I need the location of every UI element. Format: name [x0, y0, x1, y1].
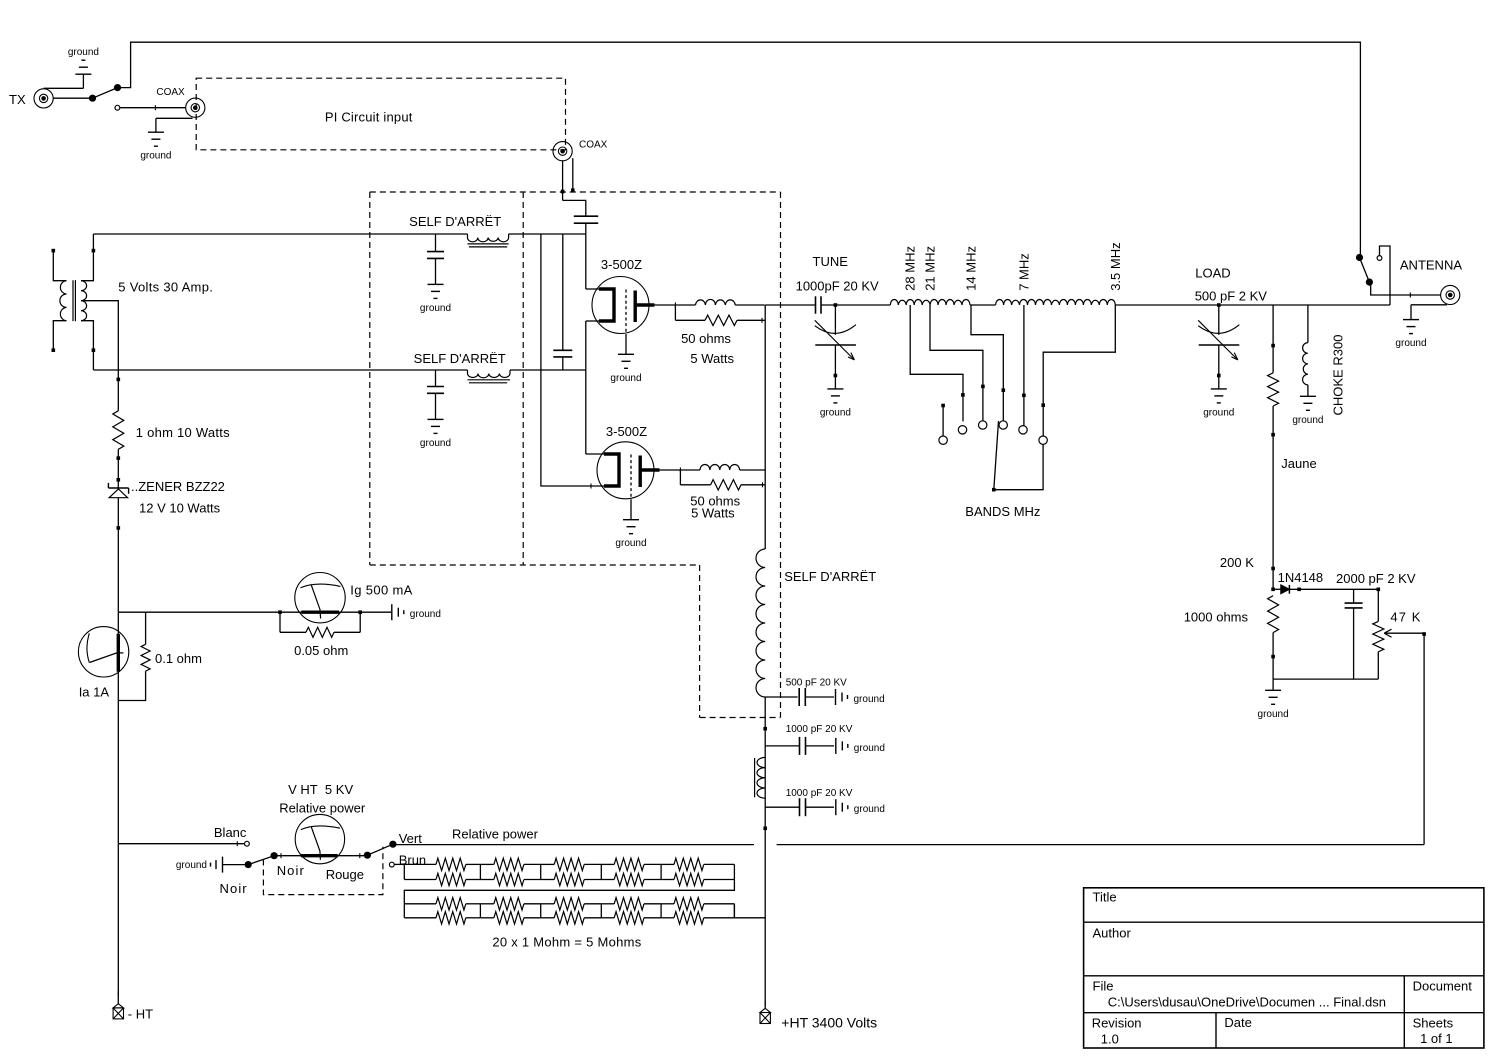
wire coax jog to coupling cap [563, 200, 586, 216]
resistor 1000 ohms [1184, 596, 1279, 679]
svg-text:28 MHz: 28 MHz [903, 246, 918, 291]
wire divider tap [1271, 305, 1275, 373]
label 28 MHz [903, 246, 918, 291]
svg-text:50 ohms: 50 ohms [681, 331, 731, 346]
resistor R 50 ohms 5 Watts V2 [680, 470, 765, 521]
contact band spare [939, 436, 947, 444]
label 21 MHz [923, 246, 938, 291]
svg-text:5 Volts 30 Amp.: 5 Volts 30 Amp. [118, 280, 213, 295]
svg-text:SELF D'ARRËT: SELF D'ARRËT [409, 214, 501, 229]
dashed box grid circuit (left edge) [369, 192, 371, 565]
tube V1 3-500Z [592, 257, 675, 334]
contact band 21 MHz [979, 421, 987, 429]
wire Blanc [118, 825, 247, 846]
svg-text:ground: ground [1203, 407, 1234, 418]
ground at tube V1 grid [610, 334, 641, 384]
capacitor 2000 pF 2 KV [1336, 571, 1416, 679]
svg-text:C:\Users\dusau\OneDrive\Docume: C:\Users\dusau\OneDrive\Documen ... Fina… [1108, 995, 1386, 1010]
wire tube V1 filament bottom to line2 [586, 321, 599, 370]
inductor PI tank coil section 1 [890, 299, 970, 305]
svg-text:Noir: Noir [220, 881, 248, 896]
svg-text:ground: ground [854, 694, 885, 705]
dashed box grid circuit (bottom edge A) [370, 564, 700, 566]
svg-text:Ia 1A: Ia 1A [79, 685, 110, 700]
svg-text:Noir: Noir [277, 863, 305, 878]
svg-text:3.5 MHz: 3.5 MHz [1108, 242, 1123, 290]
terminal - HT [113, 1004, 153, 1022]
svg-text:ground: ground [1292, 415, 1323, 426]
svg-text:Relative power: Relative power [279, 800, 366, 815]
svg-text:2000 pF 2 KV: 2000 pF 2 KV [1336, 571, 1416, 586]
wire relay to ANTENNA [1369, 282, 1440, 297]
capacitor C2 RF coupling filament line1 to line2 [553, 234, 572, 370]
wire Vert relative power line [393, 844, 1424, 846]
ground at COAX J1 shell [140, 118, 192, 161]
ground at 500pF cap [836, 689, 885, 705]
svg-text:3-500Z: 3-500Z [601, 257, 642, 272]
svg-text:Relative power: Relative power [452, 826, 539, 841]
svg-text:1 of 1: 1 of 1 [1420, 1031, 1453, 1046]
dashed box grid circuit (notch vertical) [699, 565, 701, 718]
svg-text:3-500Z: 3-500Z [606, 424, 647, 439]
inductor plate choke SELF D'ARRET [756, 549, 876, 697]
label 3.5 MHz [1108, 242, 1123, 290]
svg-text:Date: Date [1224, 1015, 1251, 1030]
svg-text:Blanc: Blanc [214, 825, 247, 840]
capacitor bypass on line 2 [427, 370, 444, 393]
svg-text:Revision: Revision [1092, 1016, 1142, 1031]
svg-text:Jaune: Jaune [1281, 456, 1316, 471]
capacitor bypass on line 1 [427, 234, 444, 258]
svg-text:1.0: 1.0 [1101, 1032, 1119, 1047]
contact band 3.5 MHz [1039, 436, 1047, 444]
inductor parasitic choke V1 [675, 299, 764, 305]
svg-text:1000 pF 20 KV: 1000 pF 20 KV [786, 788, 853, 799]
ground at upper 1000pF cap [836, 738, 885, 754]
resistor shunt 0.1 ohm [118, 612, 202, 700]
wire up to 47K wiper [1422, 632, 1426, 844]
svg-text:ANTENNA: ANTENNA [1400, 258, 1462, 273]
ground at Noir contact [176, 857, 223, 873]
svg-text:ground: ground [854, 743, 885, 754]
svg-text:1 ohm 10 Watts: 1 ohm 10 Watts [136, 425, 230, 440]
wire spare contact stub [941, 404, 945, 436]
svg-text:ground: ground [820, 407, 851, 418]
svg-text:ground: ground [68, 47, 99, 58]
label Relative power 2 [452, 826, 539, 841]
svg-text:0.05 ohm: 0.05 ohm [294, 643, 348, 658]
ground below line2 bypass cap [420, 393, 451, 449]
svg-text:21 MHz: 21 MHz [923, 246, 938, 291]
wire COAX J2 center pin down [561, 161, 565, 201]
svg-text:PI Circuit input: PI Circuit input [325, 110, 413, 125]
label 14 MHz [964, 246, 979, 291]
svg-text:ground: ground [176, 860, 207, 871]
resistor shunt 0.05 ohm [280, 612, 360, 658]
svg-text:1N4148: 1N4148 [1278, 570, 1324, 585]
svg-text:ground: ground [615, 538, 646, 549]
svg-text:Sheets: Sheets [1413, 1016, 1454, 1031]
wire line1 to tube V2 filament (crossover) [541, 234, 604, 489]
wire transformer center tap [81, 301, 118, 380]
capacitor variable TUNE [815, 305, 856, 389]
capacitor 500 pF 20 KV [765, 678, 847, 707]
wire TX to relay pole [53, 97, 89, 99]
node TUNE tap [834, 303, 838, 307]
svg-text:ground: ground [420, 438, 451, 449]
wire cathode return rail [117, 378, 121, 1004]
resistor R 50 ohms 5 Watts V1 [675, 305, 764, 366]
svg-text:5 Watts: 5 Watts [691, 506, 735, 521]
wire tap 28 MHz [910, 305, 964, 421]
svg-text:Brun: Brun [399, 853, 426, 868]
dashed box PI Circuit input [196, 78, 565, 150]
ground at TX shell [44, 47, 99, 88]
contact band 14 MHz [999, 421, 1007, 429]
wire line2 to tube V2 filament top [586, 370, 604, 454]
diode ZENER BZZ22 12V 10W [108, 479, 225, 516]
meter Ia 1A [78, 627, 128, 700]
svg-text:ground: ground [420, 303, 451, 314]
resistor bank 20 x 1 Mohm [394, 858, 765, 949]
svg-text:ground: ground [140, 151, 171, 162]
svg-text:1000 ohms: 1000 ohms [1184, 609, 1249, 624]
connector ANTENNA [1400, 258, 1462, 305]
wire tap 14 MHz [971, 305, 1005, 421]
wire filament line 1 [93, 233, 585, 235]
svg-text:COAX: COAX [579, 140, 608, 151]
ground at detector [1258, 679, 1289, 720]
ground at lower 1000pF cap [836, 799, 885, 815]
svg-text:500 pF 20 KV: 500 pF 20 KV [786, 678, 847, 689]
svg-text:1000 pF 20 KV: 1000 pF 20 KV [786, 724, 853, 735]
capacitor 1000 pF 20 KV upper [765, 724, 853, 755]
svg-text:+HT 3400 Volts: +HT 3400 Volts [781, 1015, 877, 1031]
svg-text:1000pF 20 KV: 1000pF 20 KV [796, 279, 879, 294]
capacitor 1000 pF 20 KV lower [765, 788, 853, 816]
svg-text:7 MHz: 7 MHz [1016, 253, 1031, 291]
ground at CHOKE R300 [1292, 396, 1323, 426]
dashed box grid circuit (top edge) [370, 191, 781, 193]
tube V2 3-500Z [597, 424, 680, 500]
meter Ig 500 mA [295, 573, 413, 623]
wire relay to COAX input [120, 105, 186, 110]
connector COAX J1 (amp input) [156, 87, 205, 117]
ground at ANTENNA shell [1395, 305, 1447, 349]
svg-text:Ig 500 mA: Ig 500 mA [350, 583, 412, 598]
label SELF D'ARRET 2 [414, 351, 506, 366]
meter VHT 5KV relative power [279, 782, 366, 864]
inductor PI tank coil section 2 [996, 299, 1116, 305]
wire RF node to tube V1 filament top [586, 234, 599, 289]
inductor parasitic choke V2 [680, 465, 765, 471]
connector COAX J2 (PI output) [553, 140, 608, 161]
svg-text:COAX: COAX [156, 87, 185, 98]
resistor 1 ohm 10 Watts [113, 411, 230, 450]
svg-text:500 pF 2 KV: 500 pF 2 KV [1195, 288, 1268, 303]
resistor 47 K potentiometer [1373, 589, 1422, 679]
wire TX relay to antenna relay (top bus) [118, 42, 1361, 254]
svg-text:BANDS MHz: BANDS MHz [965, 504, 1040, 519]
svg-text:Rouge: Rouge [326, 867, 364, 882]
dashed box meter connections [263, 847, 383, 895]
relay S1 input T/R switch [89, 84, 121, 110]
svg-text:Title: Title [1093, 890, 1117, 905]
wire Jaune [1271, 406, 1316, 589]
dashed box grid circuit (right edge) [780, 192, 782, 718]
ground at LOAD cap [1203, 389, 1234, 419]
resistor 200 K [1220, 373, 1279, 570]
wire to VHT meter [274, 853, 367, 858]
svg-text:LOAD: LOAD [1195, 266, 1230, 281]
label SELF D'ARRET 1 [409, 214, 501, 229]
ground below line1 bypass cap [420, 258, 451, 314]
svg-text:Document: Document [1413, 979, 1473, 994]
svg-text:ground: ground [610, 373, 641, 384]
capacitor variable LOAD [1195, 266, 1268, 389]
transformer T1 filament 5V 30A [52, 234, 214, 370]
svg-text:200 K: 200 K [1220, 555, 1254, 570]
wire COAX J2 shell stub [571, 158, 575, 192]
relay S2 antenna T/R switch [1356, 254, 1382, 286]
ground at grid branch end [392, 604, 441, 620]
svg-text:V HT 5 KV: V HT 5 KV [288, 782, 353, 797]
wire tap 3.5 MHz [1041, 305, 1115, 436]
svg-text:..ZENER BZZ22: ..ZENER BZZ22 [131, 479, 225, 494]
wire PI output line [1115, 304, 1390, 306]
svg-text:Author: Author [1093, 926, 1132, 941]
node LOAD tap [1217, 303, 1221, 307]
svg-text:File: File [1093, 979, 1114, 994]
inductor HV feedthrough choke [755, 757, 766, 798]
wire PI output to relay contact [1380, 246, 1391, 305]
contact band 7 MHz [1019, 426, 1027, 434]
svg-text:0.1 ohm: 0.1 ohm [155, 651, 202, 666]
capacitor blocking 1000pF 20 KV TUNE [765, 254, 890, 314]
dashed box divider (filament chokes right edge) [522, 192, 524, 565]
svg-text:20 x 1 Mohm = 5 Mohms: 20 x 1 Mohm = 5 Mohms [492, 935, 641, 950]
wire tap 7 MHz [1022, 305, 1026, 425]
svg-text:ground: ground [854, 804, 885, 815]
wire coil mid [970, 304, 996, 306]
svg-text:ground: ground [1395, 338, 1426, 349]
inductor CHOKE R300 [1303, 305, 1346, 416]
contact Brun open [389, 862, 394, 867]
title block [1084, 888, 1484, 1048]
label 7 MHz [1016, 253, 1031, 291]
svg-text:ground: ground [1258, 709, 1289, 720]
wire detector common [1273, 678, 1378, 680]
svg-text:14 MHz: 14 MHz [964, 246, 979, 291]
svg-text:47 K: 47 K [1390, 610, 1421, 625]
switch meter output [364, 831, 426, 868]
svg-text:5 Watts: 5 Watts [690, 351, 734, 366]
ground at tube V2 grid [615, 500, 646, 550]
svg-text:SELF D'ARRËT: SELF D'ARRËT [784, 569, 876, 584]
arrow 47K wiper [1384, 629, 1424, 637]
inductor filament choke L2 [468, 370, 511, 383]
wire plate bus vertical [764, 305, 766, 549]
svg-text:ground: ground [410, 609, 441, 620]
wire plate choke to HT rail [763, 697, 767, 1008]
inductor filament choke L1 [468, 234, 509, 247]
dashed box grid circuit (bottom edge B) [700, 717, 781, 719]
diode 1N4148 [1271, 570, 1380, 594]
switch meter input pole [220, 852, 278, 896]
capacitor C1 RF coupling to filament line 1 [574, 216, 598, 234]
wire tap 21 MHz [930, 305, 985, 421]
contact Blanc open [245, 841, 250, 846]
wire filament line 2 [93, 369, 585, 371]
wire grid current branch [118, 610, 392, 614]
ground at TUNE cap [820, 389, 851, 419]
svg-text:SELF D'ARRËT: SELF D'ARRËT [414, 351, 506, 366]
svg-text:CHOKE R300: CHOKE R300 [1331, 335, 1346, 416]
contact band 28 MHz [958, 426, 966, 434]
svg-text:Vert: Vert [399, 831, 423, 846]
connector TX (coax jack) [9, 89, 53, 108]
switch BANDS wiper [965, 421, 1043, 519]
svg-text:- HT: - HT [128, 1007, 153, 1022]
svg-text:12 V 10 Watts: 12 V 10 Watts [139, 501, 221, 516]
svg-text:TX: TX [9, 92, 26, 107]
svg-text:TUNE: TUNE [813, 254, 849, 269]
terminal +HT 3400 Volts [760, 1008, 877, 1030]
